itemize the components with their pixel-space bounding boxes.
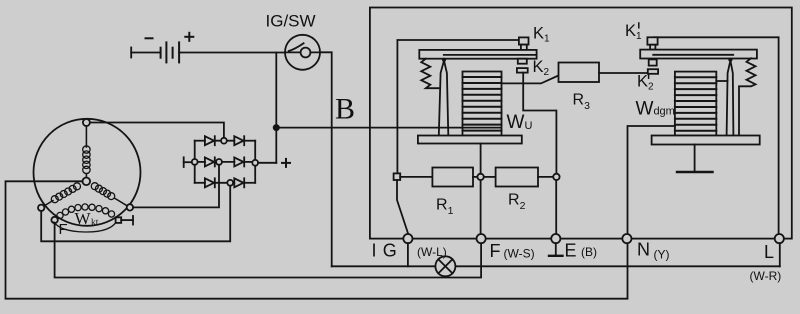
rectifier stub terminal — [184, 157, 195, 167]
relay1 yoke plate — [418, 136, 522, 144]
rectifier left bus — [194, 141, 196, 183]
wire square to R1 — [400, 176, 432, 178]
node rectifier left bus row2 — [192, 159, 198, 165]
field body tick terminal — [121, 216, 133, 225]
field terminal square — [116, 217, 122, 223]
contact K2' nib — [649, 59, 657, 65]
diode D2 — [215, 136, 255, 145]
wire R1 to mid node — [473, 176, 477, 178]
stator winding phase left — [51, 183, 80, 203]
svg-text:R1: R1 — [436, 197, 454, 218]
node rectifier row2 mid — [216, 159, 222, 165]
svg-text:K2: K2 — [637, 73, 654, 93]
svg-text:R3: R3 — [573, 92, 591, 113]
svg-text:WU: WU — [507, 112, 533, 133]
svg-text:kt: kt — [91, 218, 99, 228]
wire star right lead — [115, 198, 128, 206]
node R1 R2 junction — [477, 174, 483, 180]
terminal L — [775, 234, 784, 243]
relay2 K1' wire to L — [654, 37, 779, 234]
node rectifier row3 mid — [227, 180, 233, 186]
wire star center N to N terminal — [6, 181, 628, 298]
wire stator left to rectifier row3 — [41, 186, 230, 242]
wire yoke plate to F terminal — [480, 144, 482, 235]
diode D4 — [215, 157, 255, 166]
svg-text:B: B — [335, 93, 355, 126]
coil WU — [463, 72, 502, 136]
contact K2 nib — [518, 59, 527, 64]
battery BAT — [131, 33, 193, 63]
svg-text:N: N — [637, 240, 650, 260]
ground relay2 — [677, 145, 713, 173]
node field terminal F' — [51, 217, 57, 223]
wire right node to E terminal — [555, 180, 557, 234]
terminal IG — [403, 234, 412, 243]
terminal N — [622, 234, 631, 243]
svg-text:K2: K2 — [533, 58, 550, 78]
terminal F — [477, 234, 486, 243]
alternator stator frame — [34, 119, 141, 226]
svg-text:(Y): (Y) — [654, 248, 670, 262]
svg-text:W: W — [75, 209, 92, 228]
wire coil Wdgm to needle — [716, 80, 727, 82]
wire square to IG terminal — [397, 180, 408, 233]
node rectifier output plus — [252, 160, 258, 166]
svg-text:(W-R): (W-R) — [750, 269, 782, 283]
contact K2' fixed block — [648, 69, 658, 74]
resistor R1 — [432, 168, 473, 187]
resistor R2 — [496, 168, 538, 187]
diode D3 — [195, 157, 215, 166]
svg-text:F: F — [490, 241, 501, 261]
contact K1' nib — [650, 45, 655, 50]
resistor R3 — [559, 63, 600, 83]
node stator right — [127, 204, 133, 210]
node R2 right junction — [553, 174, 559, 180]
node stator top — [83, 119, 90, 126]
contact K2 fixed block — [517, 68, 528, 73]
relay1 armature needle — [439, 58, 449, 136]
svg-text:(B): (B) — [581, 245, 597, 259]
svg-text:F: F — [59, 221, 68, 238]
relay1 spring — [421, 59, 438, 88]
wire stator top to rectifier row1 — [90, 123, 224, 139]
node stator left — [38, 205, 44, 211]
contact K1' fixed block — [647, 37, 657, 44]
wire coil WU to R3 — [502, 76, 559, 84]
coil Wdgm — [675, 72, 716, 136]
relay2 armature arm — [640, 50, 757, 59]
svg-text:I G: I G — [372, 241, 398, 261]
diode D1 — [195, 136, 215, 145]
wire stator right to rectifier row2 — [133, 165, 219, 208]
svg-text:IG/SW: IG/SW — [266, 12, 316, 31]
relay1 frame wire to K1 — [397, 40, 519, 173]
relay2 spring — [739, 58, 756, 135]
lamp charge indicator — [435, 256, 455, 276]
relay2 yoke plate — [652, 136, 760, 145]
wire B bus — [276, 127, 501, 129]
stator winding phase right — [91, 183, 114, 200]
stator winding phase top — [83, 126, 90, 178]
regulator box — [370, 8, 792, 239]
svg-text:K1: K1 — [533, 25, 550, 45]
diode D6 — [215, 178, 255, 187]
svg-text:Wdgm: Wdgm — [636, 99, 675, 120]
wire switch to IG drop — [320, 52, 332, 266]
svg-text:(W-S): (W-S) — [504, 247, 535, 261]
ground E — [549, 243, 563, 256]
node square IG link — [394, 173, 401, 180]
wire R3 to K2' — [599, 72, 648, 74]
rectifier right bus — [254, 141, 256, 183]
node star center N — [83, 178, 91, 186]
wire field F to regulator F terminal — [55, 223, 482, 277]
diode D5 — [195, 178, 215, 187]
svg-text:E: E — [565, 241, 577, 261]
wire rectifier plus output — [258, 162, 276, 164]
wire coil Wdgm to N terminal — [628, 126, 675, 234]
relay1 armature arm — [419, 50, 536, 59]
wire lamp line IG to L — [332, 243, 780, 266]
field winding Wkt — [54, 204, 117, 232]
wire battery junction down to B and rectifier + — [275, 53, 277, 163]
terminal E — [551, 234, 560, 243]
node junction dot on B line — [274, 125, 279, 130]
wire node to R2 — [484, 176, 496, 178]
wire battery to ignition switch — [179, 52, 285, 54]
svg-text:R2: R2 — [508, 192, 526, 213]
svg-text:L: L — [764, 242, 774, 262]
relay2 armature needle — [727, 58, 734, 136]
wire star left lead — [44, 201, 53, 206]
contact K1 nib — [521, 45, 527, 50]
contact K1 fixed block — [519, 37, 529, 44]
node rectifier row1 mid — [221, 138, 227, 144]
wire R2 to right node — [538, 176, 553, 178]
ignition switch IG/SW — [266, 12, 321, 70]
label plus rectifier — [282, 159, 290, 167]
wire K2 to E node — [523, 73, 556, 175]
